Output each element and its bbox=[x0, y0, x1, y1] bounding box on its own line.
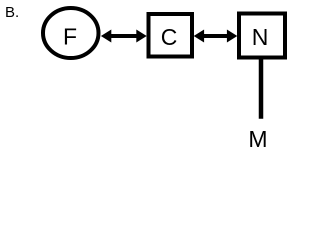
svg-text:F: F bbox=[63, 24, 77, 50]
node F (circle) bbox=[43, 8, 99, 58]
node C (box) bbox=[149, 14, 193, 57]
svg-text:M: M bbox=[248, 126, 267, 152]
wire: double arrow F-C bbox=[101, 30, 147, 43]
node N (box) bbox=[239, 14, 285, 58]
svg-text:N: N bbox=[252, 24, 269, 50]
svg-text:B.: B. bbox=[5, 4, 19, 21]
wire: N to M bbox=[259, 57, 264, 119]
wire: double arrow C-N bbox=[194, 30, 238, 43]
svg-text:C: C bbox=[161, 24, 178, 50]
